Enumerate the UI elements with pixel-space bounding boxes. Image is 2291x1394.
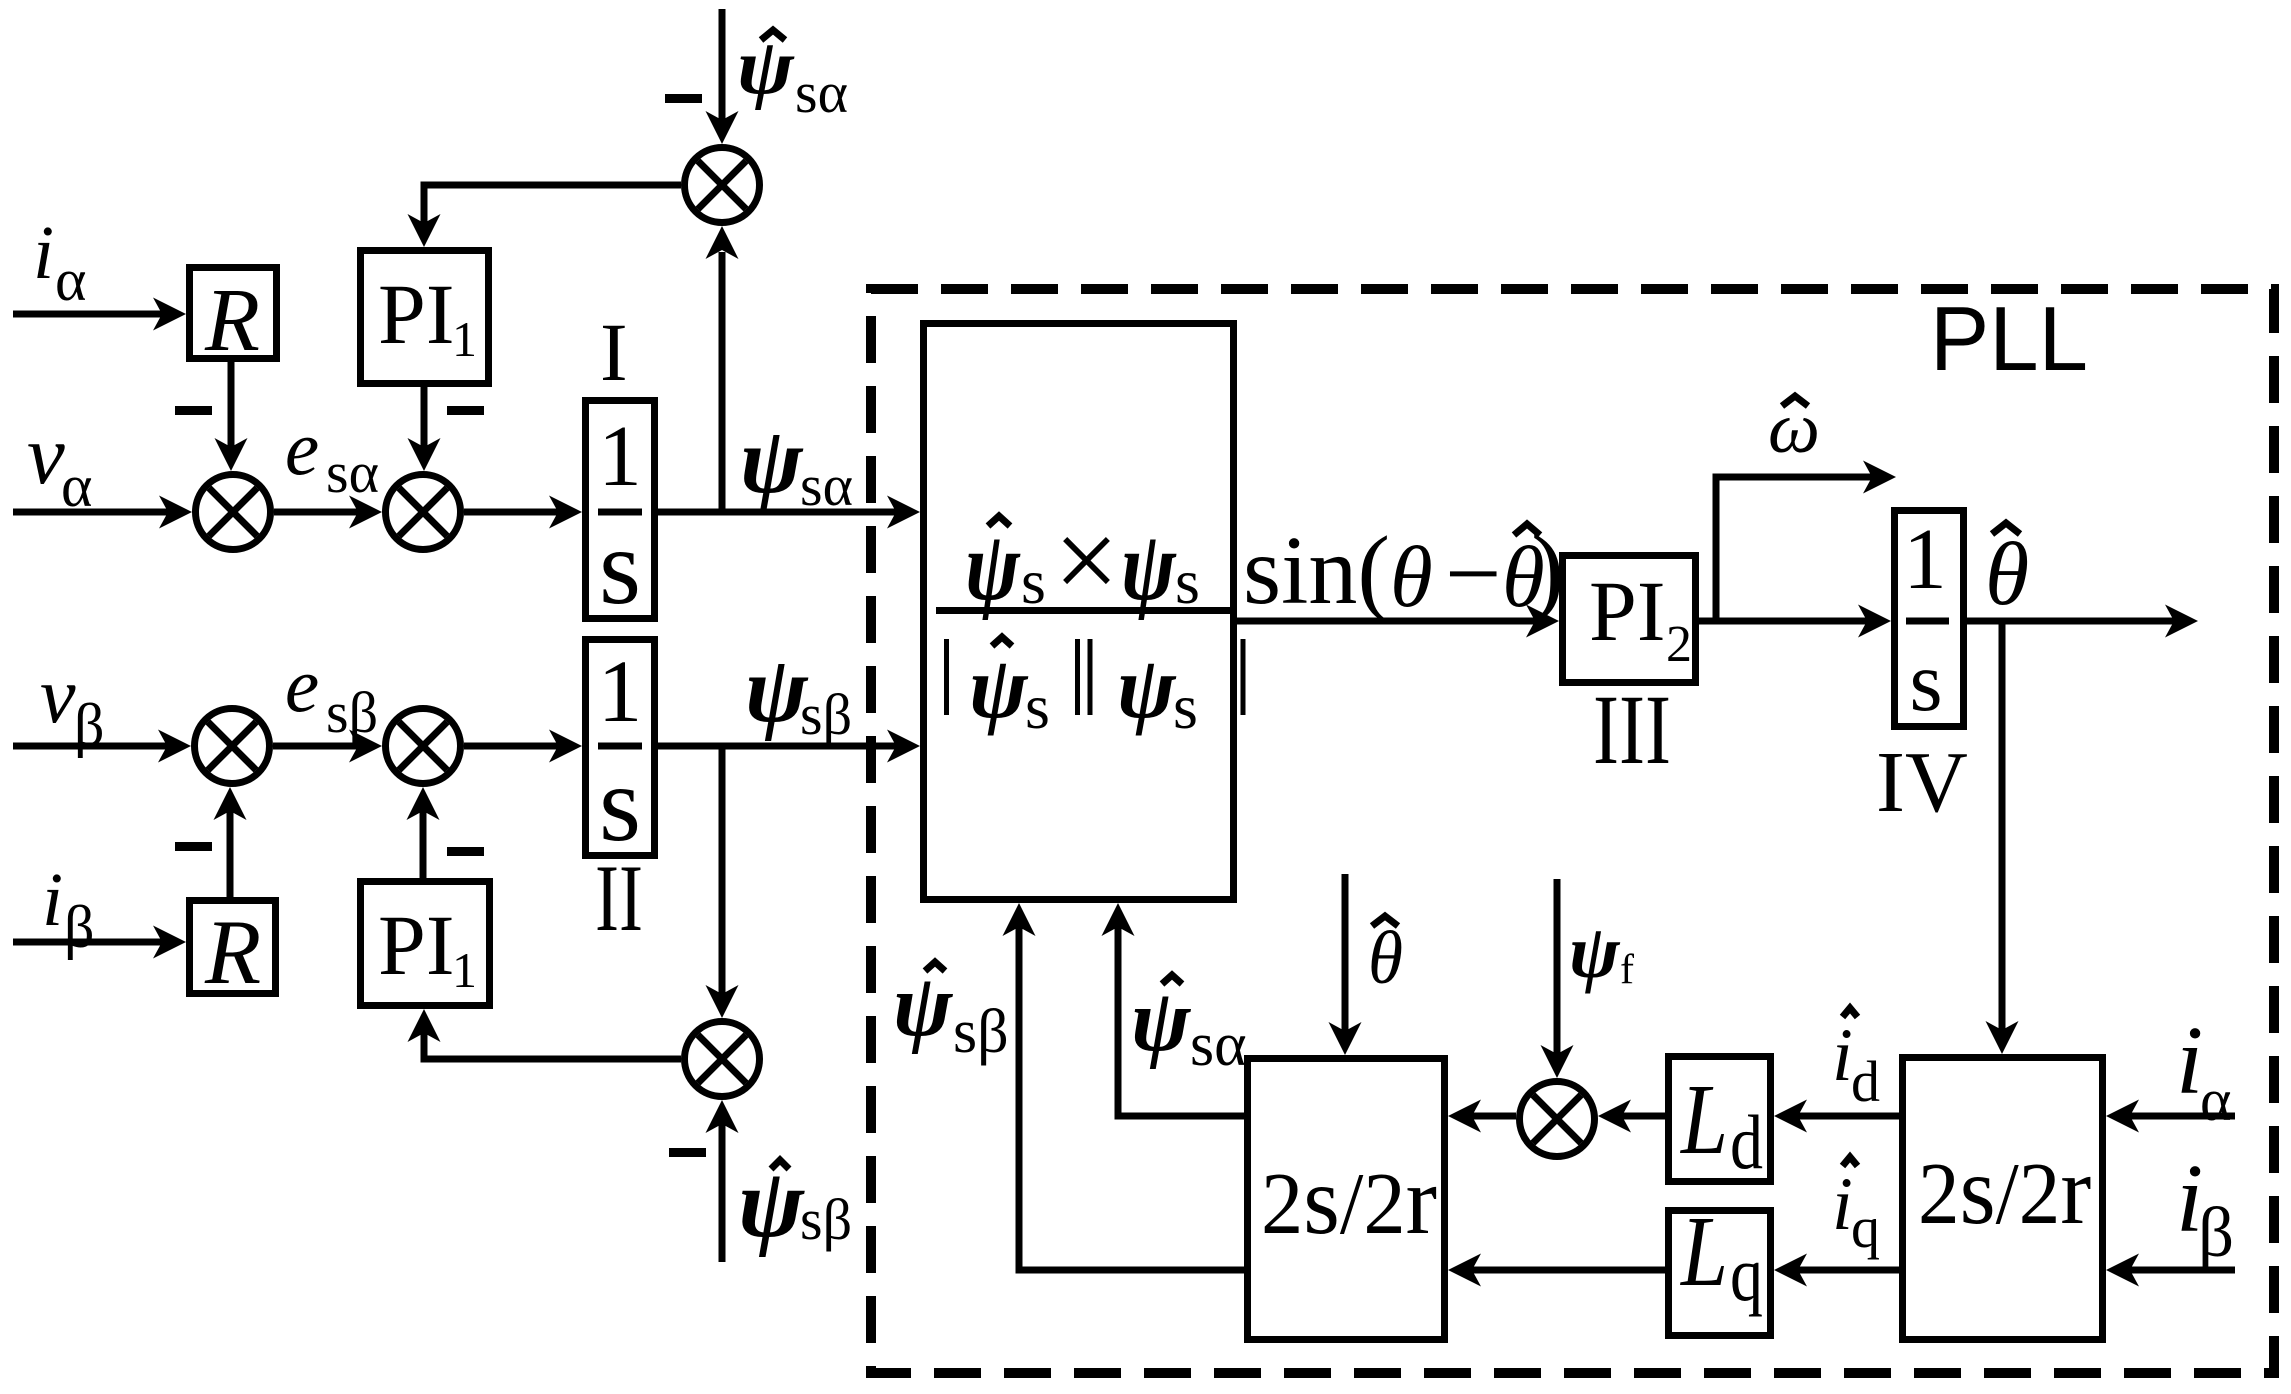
svg-text:1: 1 xyxy=(452,311,477,367)
svg-text:sin(: sin( xyxy=(1243,517,1390,625)
svg-text:θ: θ xyxy=(1368,917,1403,1000)
svg-text:I: I xyxy=(600,306,628,398)
svg-text:α: α xyxy=(61,453,92,519)
svg-text:d: d xyxy=(1730,1099,1763,1185)
svg-text:L: L xyxy=(1679,1195,1728,1307)
svg-text:f: f xyxy=(1620,947,1634,993)
svg-text:sα: sα xyxy=(1190,1011,1247,1079)
svg-text:II: II xyxy=(595,845,643,951)
svg-text:e: e xyxy=(285,642,319,728)
svg-text:sβ: sβ xyxy=(800,682,852,747)
svg-text:θ: θ xyxy=(1985,525,2029,624)
svg-text:R: R xyxy=(204,901,261,1003)
svg-text:1: 1 xyxy=(452,942,477,998)
svg-text:i: i xyxy=(1832,1014,1853,1097)
svg-text:s: s xyxy=(599,508,641,627)
svg-text:s: s xyxy=(1025,671,1050,742)
svg-text:PI: PI xyxy=(378,266,454,362)
svg-text:i: i xyxy=(42,858,63,942)
svg-text:ψ: ψ xyxy=(965,512,1021,621)
svg-text:θ: θ xyxy=(1390,528,1433,625)
svg-text:β: β xyxy=(2198,1194,2234,1272)
svg-text:): ) xyxy=(1531,514,1564,625)
svg-text:−: − xyxy=(1445,518,1501,629)
svg-text:R: R xyxy=(204,271,260,370)
svg-text:i: i xyxy=(1832,1163,1853,1246)
svg-text:1: 1 xyxy=(598,643,643,741)
svg-text:v: v xyxy=(40,652,76,740)
svg-text:sα: sα xyxy=(800,453,853,518)
svg-text:e: e xyxy=(285,405,319,491)
svg-text:i: i xyxy=(33,211,54,295)
svg-text:1: 1 xyxy=(598,407,642,504)
svg-text:sα: sα xyxy=(795,60,848,125)
svg-text:α: α xyxy=(2200,1067,2231,1133)
svg-text:IV: IV xyxy=(1876,733,1968,830)
svg-text:s: s xyxy=(1175,546,1200,617)
svg-text:s: s xyxy=(1909,635,1942,729)
svg-text:×: × xyxy=(1054,497,1119,624)
svg-text:2s/2r: 2s/2r xyxy=(1261,1145,1437,1254)
svg-text:PI: PI xyxy=(1589,563,1665,659)
svg-text:β: β xyxy=(64,894,95,960)
svg-text:1: 1 xyxy=(1903,510,1947,607)
svg-text:β: β xyxy=(74,692,105,758)
svg-text:ψ: ψ xyxy=(1117,640,1177,737)
svg-text:ψ: ψ xyxy=(1569,910,1621,994)
svg-text:ψ: ψ xyxy=(1131,972,1192,1070)
svg-text:sβ: sβ xyxy=(953,998,1009,1066)
svg-text:ψ: ψ xyxy=(740,409,804,513)
svg-text:sα: sα xyxy=(326,440,379,505)
svg-text:L: L xyxy=(1679,1063,1728,1175)
svg-text:v: v xyxy=(27,408,65,502)
svg-text:2s/2r: 2s/2r xyxy=(1918,1136,2091,1245)
svg-text:q: q xyxy=(1851,1195,1880,1260)
svg-text:d: d xyxy=(1851,1049,1880,1114)
svg-text:III: III xyxy=(1593,674,1671,785)
svg-text:ψ: ψ xyxy=(1121,512,1177,621)
svg-text:ψ: ψ xyxy=(969,640,1029,737)
svg-text:PI: PI xyxy=(378,897,454,993)
svg-text:q: q xyxy=(1730,1231,1763,1317)
svg-text:α: α xyxy=(55,247,86,313)
svg-text:s: s xyxy=(1021,546,1046,617)
svg-text:ψ: ψ xyxy=(893,957,954,1055)
svg-text:2: 2 xyxy=(1666,616,1692,673)
svg-text:PLL: PLL xyxy=(1930,289,2088,390)
svg-text:sβ: sβ xyxy=(326,680,378,745)
svg-text:sβ: sβ xyxy=(800,1187,852,1252)
svg-text:s: s xyxy=(1173,671,1198,742)
